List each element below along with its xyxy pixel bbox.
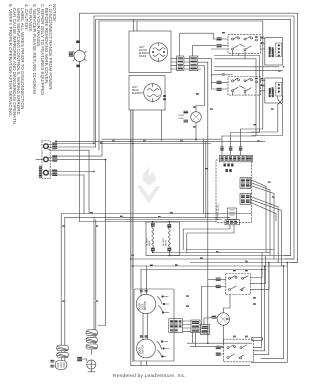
coil L2 — [163, 222, 171, 256]
ERC drop tags — [220, 147, 242, 151]
switch SW2 right rear dashed — [211, 75, 264, 95]
ERC control dashed box U1 — [216, 160, 252, 222]
svg-text:LIGHT: LIGHT — [178, 118, 185, 120]
label oven light — [178, 115, 185, 120]
notice text block — [8, 4, 56, 131]
cord assembly right — [77, 330, 97, 372]
wire bus N top — [94, 16, 294, 259]
wire bus L2 top — [96, 19, 291, 255]
element box A left front — [129, 31, 171, 73]
svg-text:RT REAR: RT REAR — [269, 87, 272, 97]
footer credit — [113, 374, 186, 379]
switch SW3 left rear dashed — [202, 253, 270, 295]
ERC right connector RC1 — [240, 178, 251, 189]
terminal block TB1 — [36, 141, 50, 179]
wire bus mid-left band — [56, 19, 266, 143]
wires P5 right — [183, 321, 196, 346]
oven element housing box — [146, 222, 180, 256]
wire door lock feeders — [141, 266, 147, 289]
connector P3 half A — [177, 56, 184, 71]
svg-text:REAR: REAR — [132, 89, 139, 92]
wire bottom band W — [187, 343, 251, 346]
wires terminal block rows — [48, 141, 106, 219]
wire band mid M4 — [80, 221, 216, 223]
wires ERC fan-out right — [251, 180, 282, 267]
svg-text:ELEMENT: ELEMENT — [273, 46, 275, 57]
svg-text:OVEN: OVEN — [178, 115, 185, 117]
svg-text:SWITCH: SWITCH — [142, 345, 144, 354]
motor M2 convection — [137, 339, 156, 358]
coil L1 — [147, 222, 155, 253]
wire long vertical BK — [207, 62, 209, 343]
wire band mid M2 — [65, 217, 230, 345]
wires switch area horizontals — [211, 56, 282, 75]
label element A — [139, 47, 150, 58]
svg-text:ELEMENT: ELEMENT — [132, 93, 143, 95]
switch SW4 right bottom dashed — [216, 263, 269, 362]
wires to ERC from top — [222, 21, 263, 155]
oven light OL1 — [184, 75, 205, 139]
wire band mid M3 — [106, 219, 223, 221]
wire bus inner top — [99, 21, 263, 150]
wire band low Z — [131, 250, 298, 270]
element E1 right front — [265, 38, 283, 65]
svg-text:BAKE: BAKE — [148, 240, 151, 246]
wires box A to connectors — [171, 33, 217, 75]
element E2 right rear — [265, 78, 283, 103]
wire labels small — [62, 32, 280, 337]
svg-text:LOCK: LOCK — [142, 303, 144, 310]
cord assembly left — [50, 345, 68, 369]
element box B left rear — [129, 76, 166, 142]
switch SW1 right front dashed — [211, 35, 264, 59]
svg-text:3000W: 3000W — [139, 56, 147, 58]
svg-text:BROIL: BROIL — [166, 239, 168, 246]
svg-text:FRONT: FRONT — [139, 50, 148, 52]
svg-text:MOTOR: MOTOR — [145, 301, 147, 310]
svg-text:DOOR: DOOR — [140, 303, 142, 310]
plug block left — [191, 320, 200, 333]
svg-text:DOOR: DOOR — [140, 347, 142, 354]
ERC connector strip — [220, 155, 253, 162]
lamp B1 cooktop light — [69, 41, 87, 68]
svg-text:ELEMENT: ELEMENT — [139, 53, 150, 55]
wire band mid M1 — [61, 139, 251, 345]
wire pair from elements down — [131, 110, 133, 289]
svg-text:LEFT: LEFT — [139, 47, 145, 49]
watermark logo — [137, 166, 161, 204]
wire lamp to neutral band — [79, 62, 81, 222]
motor M1 door lock — [136, 294, 155, 313]
connector P3 half B — [189, 56, 197, 71]
ERC bottom connector — [225, 220, 240, 225]
wires doorlock bottom — [131, 110, 250, 366]
door lock assembly box — [134, 289, 174, 361]
junction box dark — [201, 287, 210, 335]
svg-text:LEFT: LEFT — [132, 87, 138, 89]
ERC right connector RC2 — [240, 194, 251, 205]
terminal tags — [52, 142, 57, 176]
label element B — [132, 87, 143, 95]
wire cord pair down — [94, 217, 106, 329]
connector P5 — [169, 319, 183, 333]
svg-text:RT FRONT: RT FRONT — [270, 46, 272, 57]
wire crossing X under E2 — [252, 96, 288, 362]
wires ERC bottom to left — [183, 225, 234, 253]
wire bus L1 top — [80, 13, 298, 262]
svg-text:ELEMENT: ELEMENT — [273, 86, 275, 97]
element E3 left rear circle — [210, 295, 231, 344]
